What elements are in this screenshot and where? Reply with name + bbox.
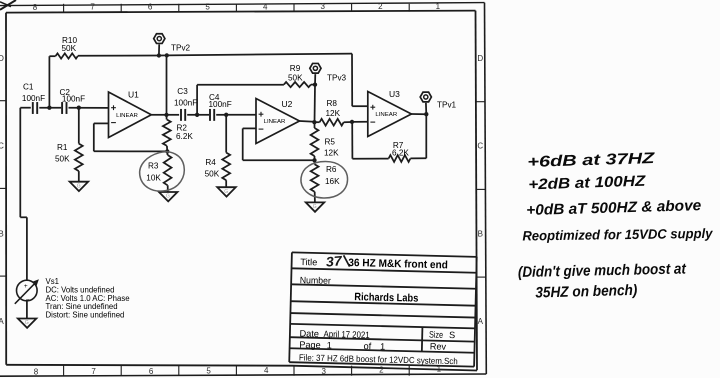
svg-text:A: A — [478, 317, 484, 326]
svg-text:1: 1 — [327, 340, 332, 350]
svg-text:+: + — [24, 283, 28, 290]
svg-text:50K: 50K — [288, 73, 303, 82]
svg-text:R6: R6 — [326, 165, 337, 174]
svg-text:Title: Title — [300, 257, 317, 267]
svg-text:4: 4 — [263, 2, 268, 11]
svg-text:Number: Number — [300, 275, 331, 286]
svg-text:8: 8 — [34, 367, 39, 376]
svg-text:G: G — [77, 183, 81, 189]
svg-text:5: 5 — [206, 367, 211, 376]
svg-text:D: D — [0, 54, 4, 63]
svg-text:R5: R5 — [325, 138, 336, 147]
svg-text:B: B — [0, 229, 4, 238]
svg-text:Date: Date — [299, 328, 319, 338]
svg-text:100nF: 100nF — [62, 94, 85, 103]
svg-text:R9: R9 — [290, 64, 301, 73]
svg-text:10K: 10K — [146, 174, 161, 183]
svg-text:C1: C1 — [23, 83, 34, 92]
svg-text:Page: Page — [299, 340, 321, 351]
svg-text:April 17 2021: April 17 2021 — [324, 329, 370, 340]
svg-text:C3: C3 — [177, 87, 188, 96]
svg-text:U1: U1 — [128, 89, 139, 99]
svg-text:100nF: 100nF — [209, 100, 232, 109]
svg-text:2: 2 — [379, 365, 384, 374]
svg-text:100nF: 100nF — [174, 98, 197, 107]
svg-text:U2: U2 — [282, 99, 293, 109]
svg-text:6.2K: 6.2K — [392, 149, 409, 158]
svg-text:2: 2 — [378, 2, 383, 11]
svg-text:C: C — [0, 142, 4, 151]
svg-text:Reoptimized for 15VDC supply: Reoptimized for 15VDC supply — [522, 226, 714, 244]
svg-text:G: G — [166, 194, 170, 200]
svg-text:S: S — [449, 330, 455, 340]
svg-text:8: 8 — [33, 3, 38, 12]
svg-text:100nF: 100nF — [22, 94, 45, 103]
svg-text:16K: 16K — [325, 177, 340, 186]
svg-text:D: D — [477, 54, 483, 63]
svg-text:LINEAR: LINEAR — [375, 112, 397, 118]
svg-text:4: 4 — [264, 366, 269, 375]
svg-text:12K: 12K — [326, 109, 341, 118]
svg-text:of: of — [363, 341, 371, 351]
svg-text:TPv1: TPv1 — [437, 101, 457, 110]
svg-text:B: B — [478, 229, 483, 238]
svg-text:3: 3 — [321, 2, 326, 11]
svg-text:G: G — [224, 189, 228, 195]
svg-text:TPv2: TPv2 — [171, 43, 191, 52]
svg-text:35HZ on bench): 35HZ on bench) — [535, 282, 637, 302]
svg-text:R3: R3 — [148, 162, 159, 171]
svg-text:C: C — [477, 142, 483, 151]
svg-text:U3: U3 — [389, 89, 400, 99]
svg-text:50K: 50K — [55, 155, 70, 164]
svg-text:36 HZ M&K front end: 36 HZ M&K front end — [348, 257, 448, 271]
svg-text:5: 5 — [205, 2, 210, 11]
svg-text:R8: R8 — [327, 99, 338, 108]
svg-text:1: 1 — [436, 2, 441, 11]
svg-text:R1: R1 — [57, 143, 68, 152]
svg-text:Rev: Rev — [430, 341, 447, 351]
svg-text:1: 1 — [380, 342, 385, 352]
svg-text:3: 3 — [322, 367, 327, 376]
svg-text:37: 37 — [325, 253, 344, 269]
svg-text:R4: R4 — [205, 158, 216, 167]
svg-text:(Didn't give much boost at: (Didn't give much boost at — [518, 260, 687, 281]
svg-text:TPv3: TPv3 — [327, 73, 347, 82]
svg-text:6: 6 — [148, 3, 153, 12]
svg-text:G: G — [25, 320, 29, 326]
svg-text:Richards Labs: Richards Labs — [354, 291, 418, 305]
svg-text:Size: Size — [429, 330, 443, 340]
svg-text:LINEAR: LINEAR — [116, 113, 138, 119]
svg-text:50K: 50K — [62, 44, 77, 53]
svg-text:G: G — [313, 204, 317, 210]
svg-text:6.2K: 6.2K — [176, 132, 193, 141]
svg-text:7: 7 — [90, 3, 95, 12]
svg-text:LINEAR: LINEAR — [264, 119, 286, 125]
svg-text:12K: 12K — [324, 149, 339, 158]
svg-text:50K: 50K — [205, 169, 220, 178]
svg-text:7: 7 — [91, 367, 96, 376]
svg-text:6: 6 — [149, 367, 154, 376]
svg-text:Distort: Sine undefined: Distort: Sine undefined — [46, 311, 125, 320]
